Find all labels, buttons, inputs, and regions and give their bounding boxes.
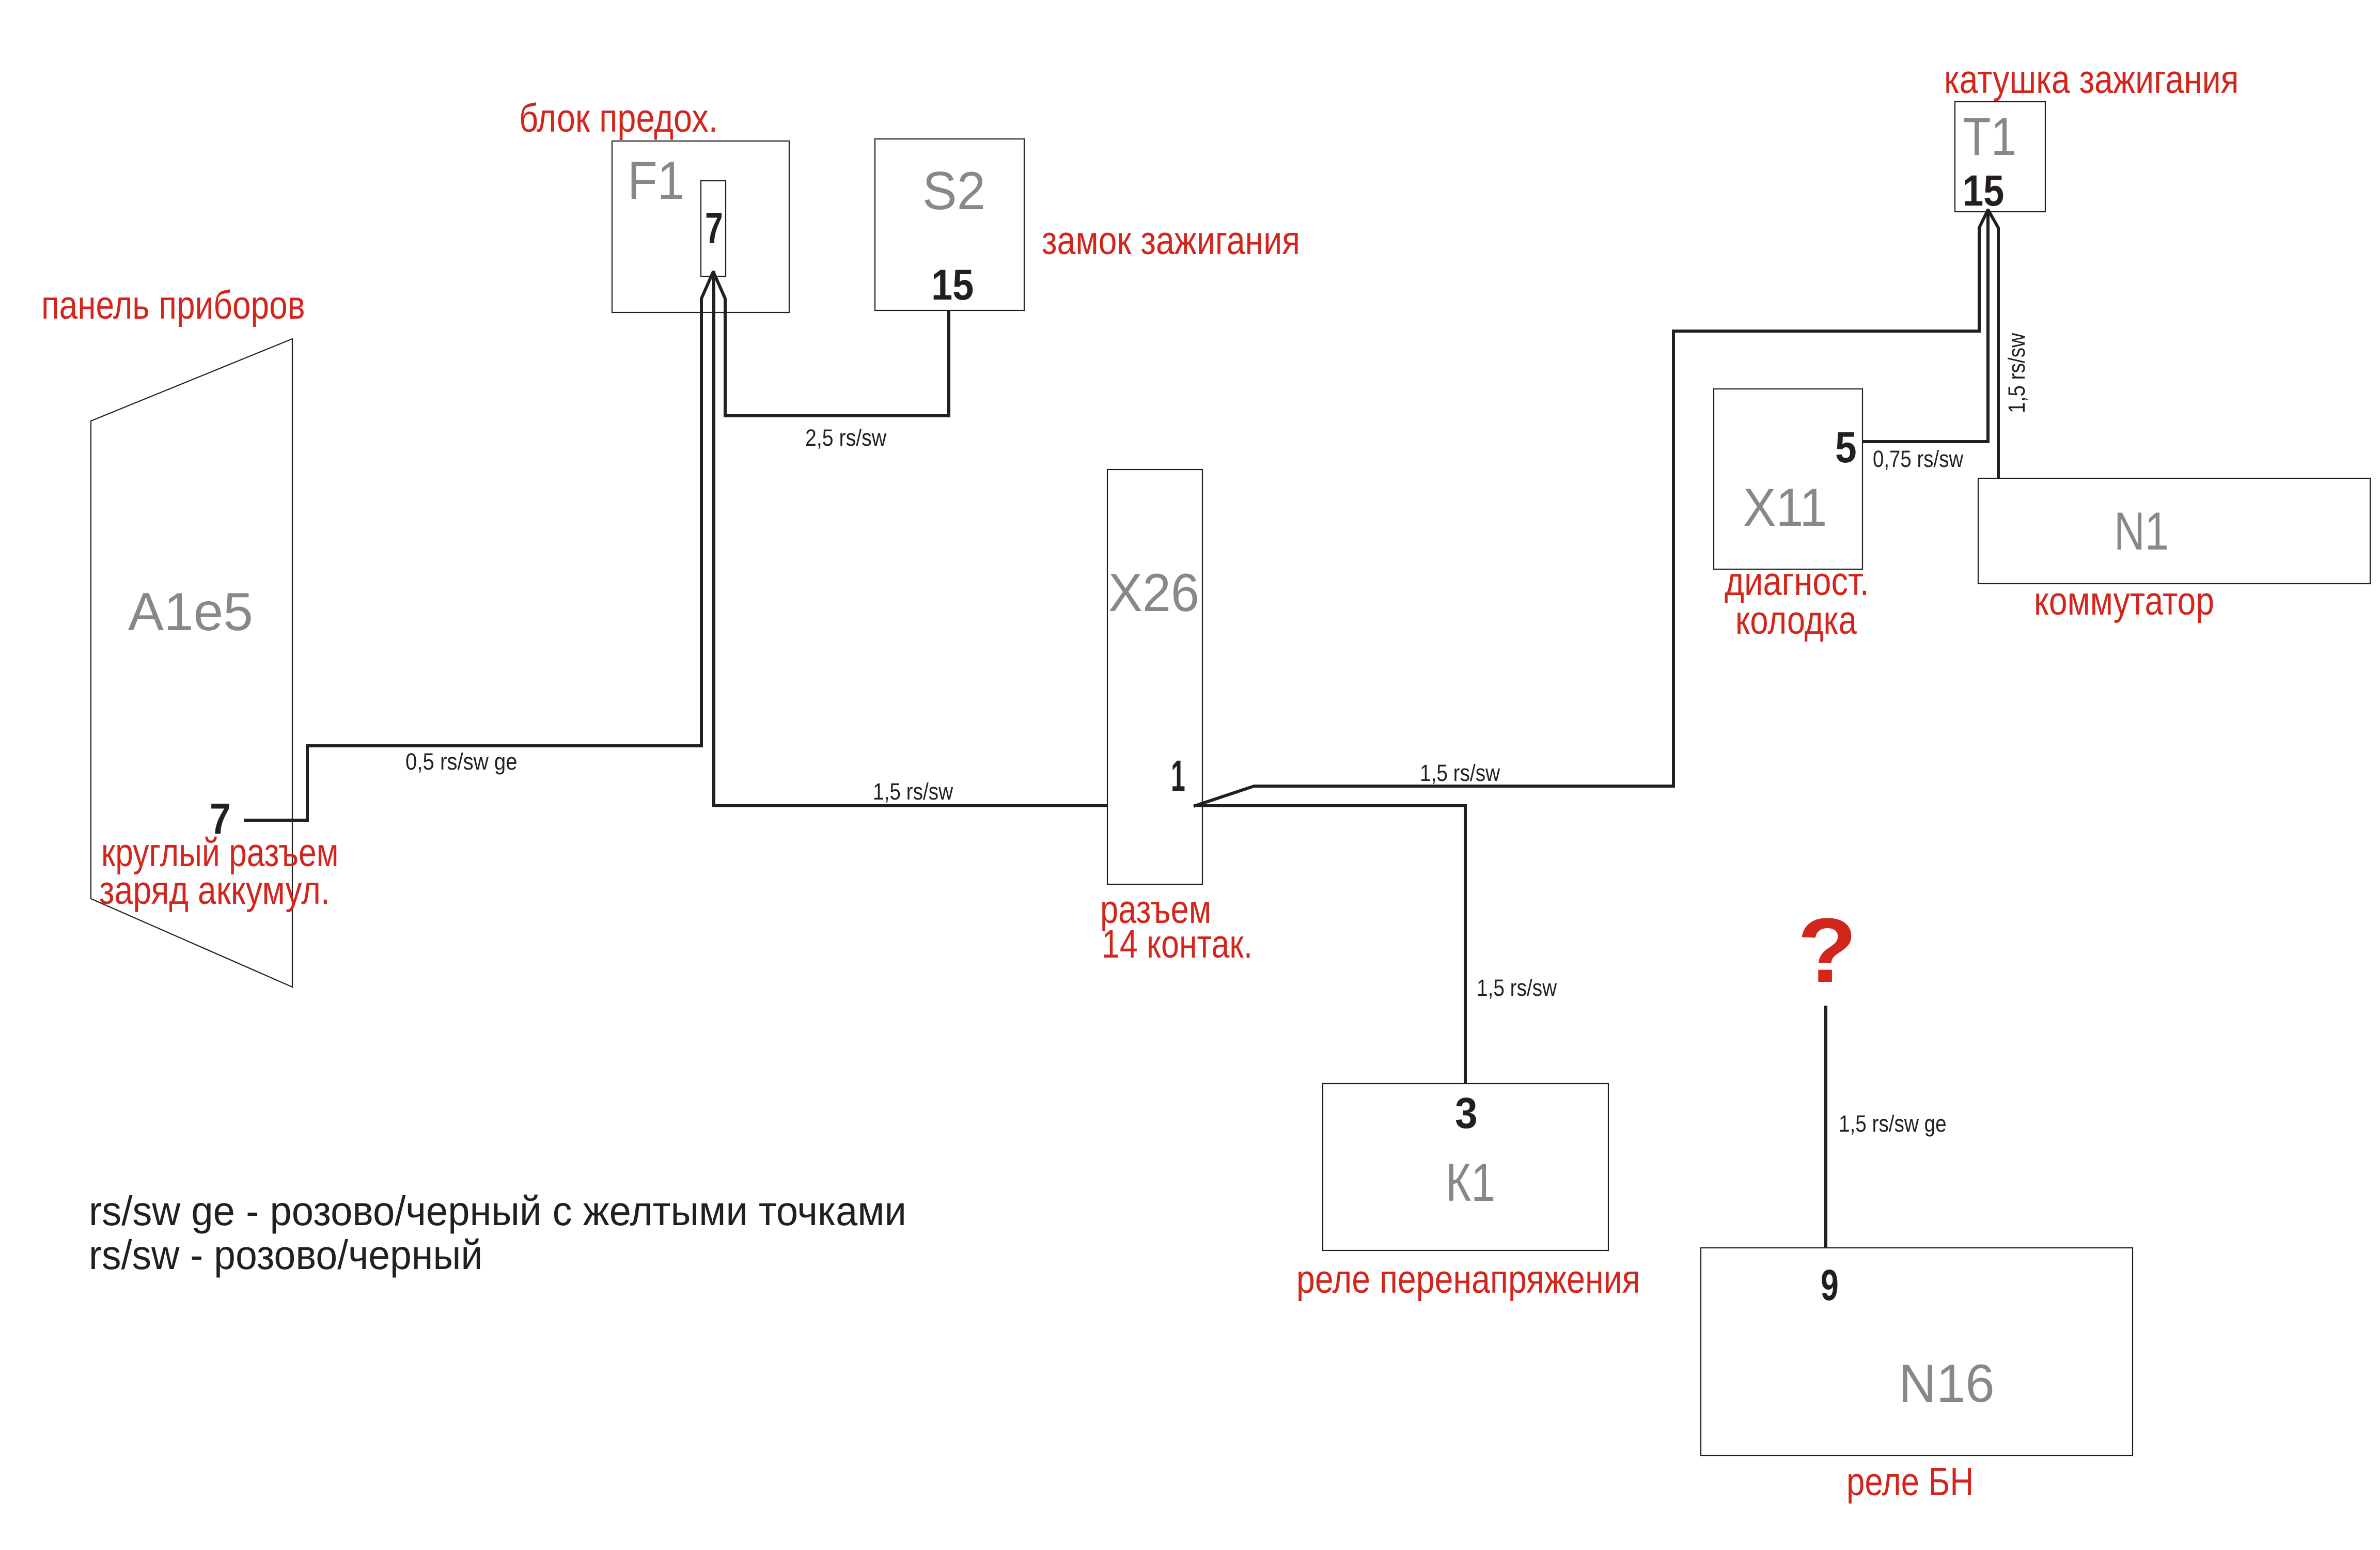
svg-text:N1: N1 — [2114, 501, 2169, 561]
svg-text:15: 15 — [931, 260, 974, 309]
svg-text:коммутатор: коммутатор — [2034, 580, 2214, 624]
svg-text:S2: S2 — [922, 161, 985, 221]
fuse box F1 — [612, 141, 789, 312]
svg-text:A1e5: A1e5 — [128, 582, 253, 641]
svg-text:0,75 rs/sw: 0,75 rs/sw — [1873, 446, 1964, 472]
svg-text:1,5 rs/sw ge: 1,5 rs/sw ge — [1839, 1110, 1947, 1136]
svg-text:реле перенапряжения: реле перенапряжения — [1296, 1258, 1640, 1302]
svg-text:7: 7 — [210, 794, 231, 843]
svg-text:реле БН: реле БН — [1846, 1459, 1974, 1504]
svg-text:F1: F1 — [628, 151, 684, 211]
wire 0,5 rs/sw ge: A1e5 pin 7 to F1 fuse 7 (left arrow flank) — [244, 272, 713, 820]
instrument panel A1e5 outline — [91, 339, 292, 987]
svg-text:колодка: колодка — [1735, 598, 1857, 642]
svg-text:?: ? — [1797, 899, 1857, 1001]
svg-text:1,5 rs/sw: 1,5 rs/sw — [1420, 760, 1500, 786]
svg-text:3: 3 — [1455, 1089, 1478, 1138]
svg-text:rs/sw ge - розово/черный с жел: rs/sw ge - розово/черный с желтыми точка… — [89, 1187, 906, 1234]
diagnostic connector X11 box — [1714, 389, 1862, 569]
svg-text:замок зажигания: замок зажигания — [1042, 219, 1300, 263]
svg-text:14 контак.: 14 контак. — [1102, 921, 1252, 966]
svg-text:1,5 rs/sw: 1,5 rs/sw — [1477, 975, 1557, 1000]
svg-text:Х26: Х26 — [1108, 562, 1199, 623]
svg-text:2,5 rs/sw: 2,5 rs/sw — [805, 425, 887, 451]
svg-text:0,5 rs/sw ge: 0,5 rs/sw ge — [405, 749, 518, 775]
fuse element in F1 (pin 7 slot) — [701, 181, 726, 276]
svg-text:панель приборов: панель приборов — [41, 283, 305, 327]
svg-text:15: 15 — [1963, 166, 2004, 215]
svg-text:заряд аккумул.: заряд аккумул. — [99, 869, 330, 913]
svg-text:N16: N16 — [1899, 1353, 1995, 1414]
wire 1,5 rs/sw: F1 fuse 7 down to X26 pin 1 — [714, 271, 1107, 806]
svg-text:7: 7 — [705, 203, 723, 252]
ignition switch S2 box — [875, 139, 1024, 310]
svg-text:9: 9 — [1821, 1261, 1839, 1309]
ignition coil T1 box — [1955, 102, 2045, 212]
wire 1,5 rs/sw: T1 pin 15 (right arrow flank) down to N1 — [1988, 210, 1998, 478]
svg-text:Х11: Х11 — [1743, 478, 1827, 538]
svg-text:К1: К1 — [1446, 1153, 1495, 1213]
ignition module N1 box — [1978, 478, 2370, 584]
svg-text:1,5 rs/sw: 1,5 rs/sw — [873, 778, 953, 804]
svg-text:блок предох.: блок предох. — [519, 97, 718, 140]
fuel pump relay N16 box — [1701, 1248, 2133, 1455]
svg-text:rs/sw - розово/черный: rs/sw - розово/черный — [89, 1232, 482, 1278]
svg-text:Т1: Т1 — [1963, 106, 2016, 167]
svg-text:1,5 rs/sw: 1,5 rs/sw — [2003, 333, 2029, 413]
wire 2,5 rs/sw: F1 fuse 7 (right arrow flank) to S2 pin 15 — [713, 272, 949, 416]
overvoltage relay K1 box — [1323, 1084, 1608, 1250]
svg-text:1: 1 — [1171, 751, 1185, 800]
wire 1,5 rs/sw: X26 pin 1 down to K1 pin 3 — [1194, 806, 1465, 1084]
wire 0,75 rs/sw: T1 pin 15 (center) down-left to X11 pin 5 — [1862, 209, 1988, 442]
wire 1,5 rs/sw ge: ? down to N16 pin 9 — [1824, 1006, 1827, 1248]
14-pin connector X26 box — [1107, 469, 1202, 884]
svg-text:катушка зажигания: катушка зажигания — [1944, 58, 2239, 102]
svg-text:5: 5 — [1835, 423, 1857, 472]
wire 1,5 rs/sw: X26 pin 1 to T1 pin 15 (left arrow flank) — [1194, 210, 1988, 806]
